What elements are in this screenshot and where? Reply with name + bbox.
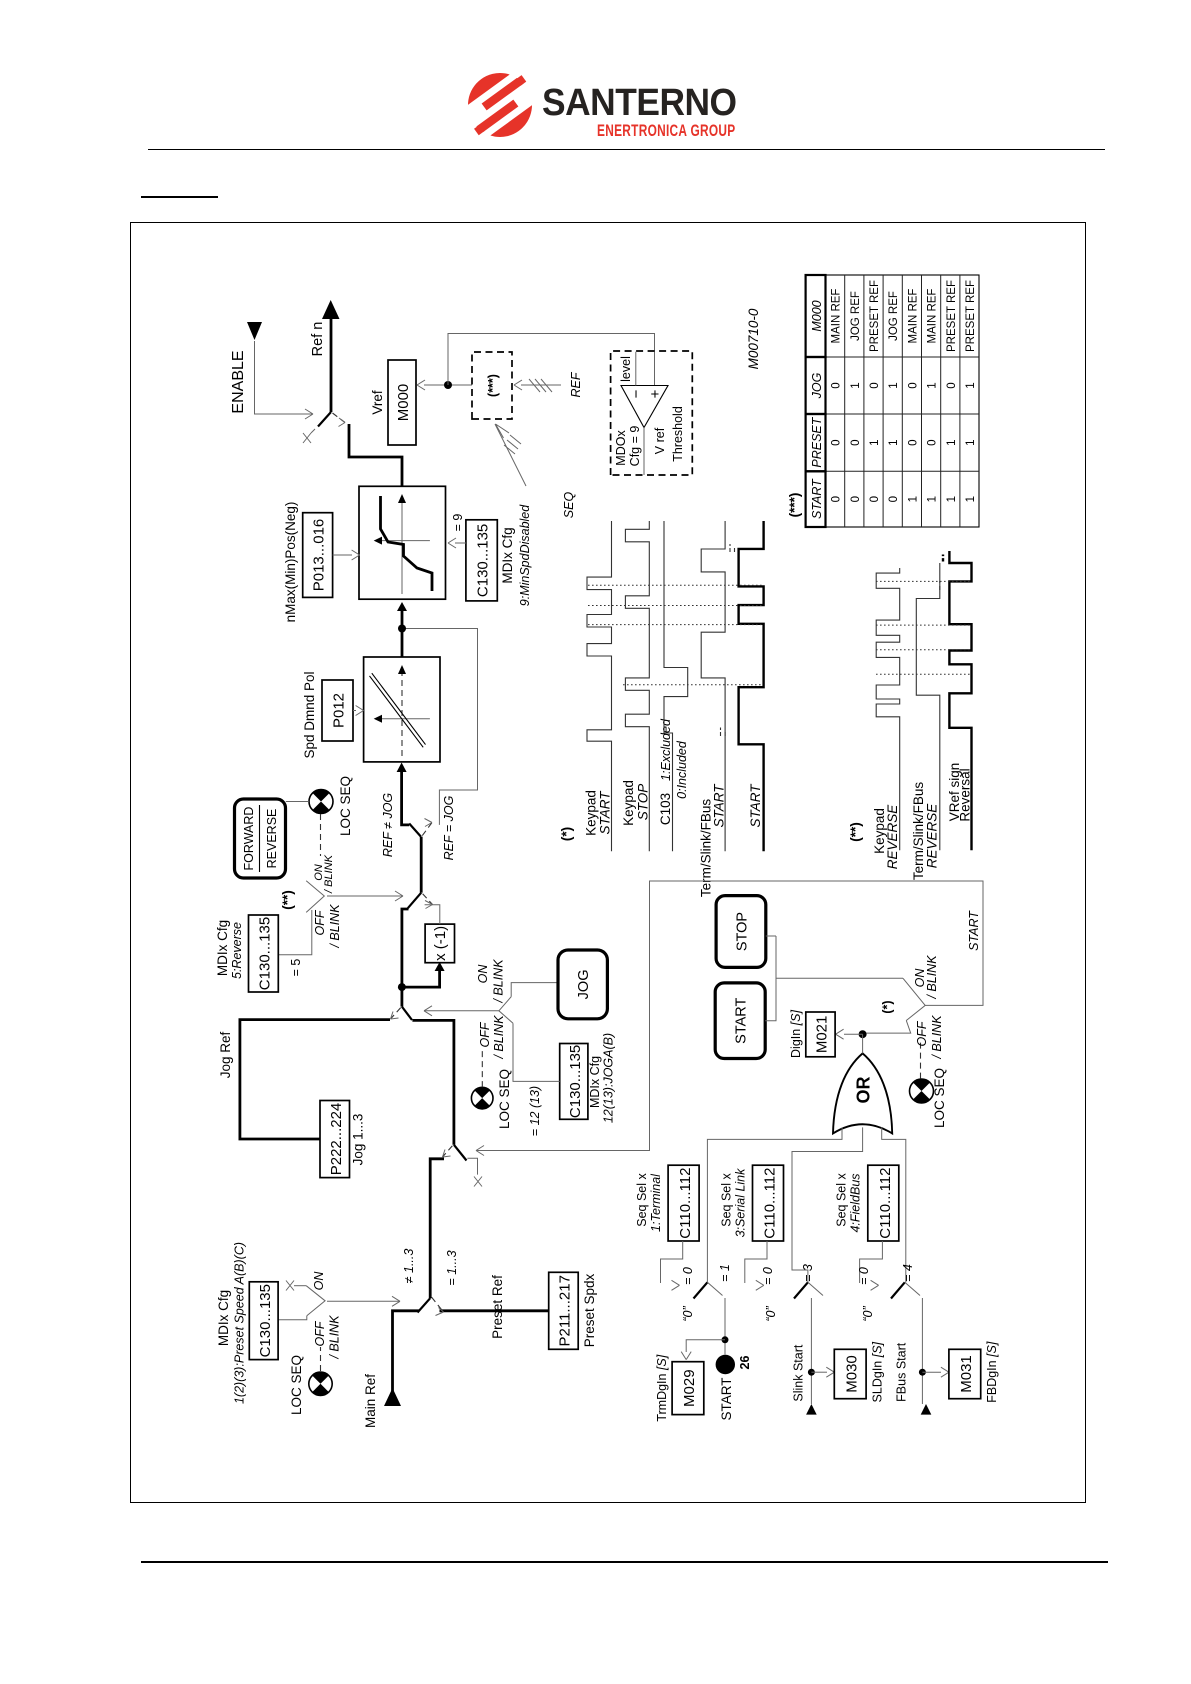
- svg-text:START: START: [598, 790, 613, 835]
- svg-text:TrmDgIn [S]: TrmDgIn [S]: [655, 1354, 669, 1421]
- svg-text:P012: P012: [331, 693, 348, 728]
- svg-text:9:MinSpdDisabled: 9:MinSpdDisabled: [518, 504, 532, 606]
- svg-text:OFF: OFF: [313, 1320, 327, 1346]
- dashed box MDOx comparator: [611, 351, 693, 475]
- dashed wire clock preset: [320, 1347, 322, 1371]
- header rule: [148, 149, 1105, 151]
- svg-text:= 0: = 0: [761, 1267, 775, 1285]
- svg-text:PRESET: PRESET: [810, 416, 824, 467]
- svg-text:Seq Sel x: Seq Sel x: [835, 1173, 849, 1227]
- selector fork preset: [306, 1286, 325, 1316]
- svg-text:(**): (**): [280, 890, 295, 910]
- svg-text:= 4: = 4: [901, 1264, 915, 1282]
- break marks thick START trace: [730, 544, 735, 552]
- wire level stub: [635, 352, 637, 386]
- svg-text:−: −: [628, 389, 645, 398]
- SANTERNO wordmark: [542, 88, 933, 120]
- svg-text:Reversal: Reversal: [958, 768, 973, 821]
- switch terminal sel: [694, 1282, 708, 1298]
- trace START thick: [739, 521, 764, 851]
- svg-text:JOG REF: JOG REF: [888, 291, 900, 341]
- svg-text:“0”: “0”: [861, 1306, 875, 1322]
- svg-text:1: 1: [946, 439, 958, 445]
- svg-text:MDIx Cfg: MDIx Cfg: [216, 1290, 231, 1346]
- arrow dashed S3: [391, 1012, 399, 1020]
- dotted align lines (**): [876, 581, 971, 674]
- trace Term START: [701, 521, 725, 851]
- svg-text:P211...217: P211...217: [557, 1275, 574, 1346]
- wire limiter output: [349, 424, 402, 486]
- break marks Term REVERSE: [939, 581, 941, 590]
- svg-text:= 1...3: = 1...3: [445, 1250, 459, 1285]
- junction dot FBDgIn: [919, 1369, 926, 1376]
- box C130...135 jog: [560, 1044, 588, 1120]
- svg-text:LOC SEQ: LOC SEQ: [338, 776, 353, 836]
- svg-text:Main Ref: Main Ref: [363, 1374, 378, 1428]
- svg-text:Ref n: Ref n: [310, 322, 326, 357]
- svg-text:1: 1: [850, 382, 862, 388]
- svg-text:ON: ON: [476, 964, 490, 984]
- svg-text:SLDgIn [S]: SLDgIn [S]: [871, 1341, 885, 1402]
- svg-text:C130...135: C130...135: [257, 1284, 274, 1357]
- svg-text:REF ≠ JOG: REF ≠ JOG: [381, 793, 395, 858]
- switch S6 enable: [318, 412, 331, 427]
- wire to comparator: [448, 334, 655, 386]
- svg-text:0: 0: [946, 382, 958, 388]
- svg-text:MDOx: MDOx: [614, 430, 628, 466]
- wire OR input2 from serial link: [792, 1127, 863, 1282]
- dashed wire clock jog: [481, 1050, 483, 1087]
- truth table grid: [806, 275, 979, 527]
- wire P012 output: [401, 611, 404, 657]
- box M030: [834, 1349, 866, 1398]
- box P211...217: [549, 1272, 579, 1349]
- trace C103: [664, 521, 688, 851]
- svg-text:= 0: = 0: [681, 1267, 695, 1285]
- box P012 param: [322, 680, 353, 741]
- svg-text:C110...112: C110...112: [762, 1168, 779, 1239]
- junction dot P012 output: [398, 625, 406, 633]
- wire arrow into M021: [844, 1033, 863, 1035]
- wire START box to fork: [765, 936, 903, 1021]
- arrow Slink Start input: [806, 1404, 817, 1415]
- trace Term REVERSE: [916, 563, 940, 850]
- svg-text:PRESET REF: PRESET REF: [965, 280, 977, 352]
- svg-text:12(13):JOGA(B): 12(13):JOGA(B): [602, 1033, 616, 1123]
- footer rule: [141, 1561, 1108, 1563]
- svg-text:= 3: = 3: [801, 1264, 815, 1282]
- diagram frame: [130, 222, 1086, 1503]
- box C130...135 limiter: [466, 520, 497, 601]
- arrow dashed S2: [443, 1150, 451, 1158]
- svg-text:MDIx Cfg: MDIx Cfg: [215, 920, 230, 976]
- svg-text:M00710-0: M00710-0: [746, 308, 761, 369]
- box FORWARD/REVERSE: [235, 799, 286, 878]
- junction dot TrmDgIn: [722, 1336, 729, 1343]
- svg-text:= 1: = 1: [718, 1264, 732, 1282]
- svg-text:Jog Ref: Jog Ref: [218, 1031, 233, 1078]
- ENERTRONICA GROUP: [597, 122, 770, 141]
- svg-text:1: 1: [965, 496, 977, 502]
- svg-text:1:Terminal: 1:Terminal: [649, 1173, 663, 1232]
- wire bypass ref=jog: [403, 629, 478, 825]
- box x(-1): [425, 924, 454, 963]
- svg-text:0:Included: 0:Included: [675, 740, 689, 799]
- box C130...135 reverse: [249, 915, 279, 992]
- switch S2 jog interrupt: [454, 1145, 467, 1161]
- svg-text:REVERSE: REVERSE: [265, 809, 279, 869]
- svg-text:0: 0: [869, 382, 881, 388]
- short underline: [141, 196, 218, 198]
- wire SLDgIn row: [810, 1298, 812, 1404]
- junction dot SLDgIn: [808, 1369, 815, 1376]
- arrow Main Ref: [384, 1388, 401, 1406]
- control arrow into S4: [327, 895, 403, 897]
- svg-text:START: START: [748, 783, 763, 828]
- svg-text:Preset Ref: Preset Ref: [490, 1275, 505, 1339]
- control arrow P012: [353, 710, 356, 712]
- svg-text:PRESET REF: PRESET REF: [869, 280, 881, 352]
- op-amp comparator: [621, 386, 668, 428]
- svg-text:MAIN REF: MAIN REF: [831, 289, 843, 344]
- svg-text:(***): (***): [787, 493, 802, 518]
- svg-text:M000: M000: [395, 384, 412, 422]
- svg-text:MAIN REF: MAIN REF: [907, 289, 919, 344]
- svg-text:= 9: = 9: [451, 514, 465, 532]
- svg-text:OFF: OFF: [478, 1021, 492, 1047]
- svg-text:PRESET REF: PRESET REF: [946, 280, 958, 352]
- svg-text:1: 1: [888, 439, 900, 445]
- svg-text:JOG REF: JOG REF: [850, 291, 862, 341]
- svg-text:Jog 1...3: Jog 1...3: [351, 1114, 366, 1166]
- svg-text:/ BLINK: / BLINK: [328, 1315, 342, 1360]
- clock LOC SEQ reverse: [309, 789, 333, 813]
- svg-text:0: 0: [907, 382, 919, 388]
- arrow dashed S5: [425, 819, 433, 827]
- wire FORWARD box to clock: [286, 801, 309, 803]
- svg-text:M000: M000: [810, 300, 824, 331]
- svg-text:V ref: V ref: [653, 427, 667, 454]
- svg-text:C130...135: C130...135: [475, 524, 492, 597]
- svg-text:1: 1: [888, 382, 900, 388]
- limiter S-curve: [381, 496, 433, 591]
- svg-text:nMax(Min)Pos(Neg): nMax(Min)Pos(Neg): [283, 502, 298, 623]
- double diagonal P012: [370, 673, 426, 747]
- svg-text:0: 0: [869, 496, 881, 502]
- wire arrow into M030: [811, 1371, 827, 1373]
- X open mark: [286, 1281, 294, 1291]
- svg-text:P222...224: P222...224: [328, 1103, 345, 1176]
- svg-text:x (-1): x (-1): [432, 926, 449, 961]
- wire arrow into M029: [686, 1340, 725, 1352]
- break marks Term: [721, 728, 726, 737]
- svg-text:MDIx Cfg: MDIx Cfg: [500, 527, 515, 583]
- svg-text:MAIN REF: MAIN REF: [927, 289, 939, 344]
- box STOP keypad: [716, 896, 766, 968]
- svg-text:M031: M031: [958, 1355, 975, 1393]
- box P013...016: [303, 513, 333, 598]
- control arrow into S3 jog: [424, 1010, 499, 1012]
- control wire S2 from JOG logic: [476, 1146, 484, 1156]
- dashed centerline P012: [401, 674, 403, 756]
- wire Jog Ref rail: [240, 1020, 390, 1139]
- switch fieldbus sel: [891, 1282, 905, 1298]
- svg-text:STOP: STOP: [735, 912, 751, 951]
- arrow ENABLE input: [247, 322, 262, 340]
- svg-text:3:Serial Link: 3:Serial Link: [734, 1168, 748, 1238]
- arrow dashed S6: [339, 418, 346, 427]
- svg-text:(*): (*): [559, 827, 574, 841]
- svg-text:ON: ON: [312, 1271, 326, 1291]
- switch S4 reverse: [408, 893, 421, 909]
- switch serial sel: [794, 1282, 808, 1298]
- svg-text:MDIx Cfg: MDIx Cfg: [588, 1056, 602, 1108]
- svg-text:Keypad: Keypad: [621, 780, 636, 826]
- vertical axis limiter: [381, 540, 430, 542]
- clock LOC SEQ start: [910, 1079, 934, 1103]
- svg-text:FBus Start: FBus Start: [895, 1342, 909, 1402]
- trace VRef sign Reversal thick: [949, 551, 971, 850]
- clock LOC SEQ preset: [309, 1372, 332, 1396]
- wire TrmDgIn row: [724, 1298, 726, 1355]
- junction dot M000: [444, 381, 452, 389]
- svg-text:1: 1: [927, 382, 939, 388]
- block limiter nMax: [359, 486, 446, 599]
- svg-text:1: 1: [946, 496, 958, 502]
- svg-text:26: 26: [738, 1356, 752, 1370]
- svg-text:REVERSE: REVERSE: [925, 803, 940, 869]
- hatch REF: [529, 379, 552, 392]
- wire preset ref: [440, 1309, 549, 1312]
- wire main ref: [393, 1311, 420, 1394]
- box START keypad: [715, 983, 765, 1059]
- svg-text:0: 0: [850, 496, 862, 502]
- arrow dashed S1: [436, 1308, 444, 1316]
- svg-text:/ BLINK: / BLINK: [930, 1015, 944, 1060]
- svg-text:= 0: = 0: [857, 1267, 871, 1285]
- svg-text:(*): (*): [881, 1000, 895, 1013]
- wire x(-1) output: [425, 905, 440, 924]
- svg-text:1: 1: [869, 439, 881, 445]
- table column PRESET: [831, 439, 977, 445]
- svg-text:“0”: “0”: [764, 1306, 778, 1322]
- wire arrow into M031: [922, 1371, 941, 1373]
- svg-text:C110...112: C110...112: [677, 1168, 694, 1239]
- wire M000 tap: [424, 384, 472, 386]
- wire Ref n output: [330, 319, 333, 412]
- svg-text:OFF: OFF: [915, 1020, 929, 1046]
- wire START control loop: [476, 881, 983, 1151]
- svg-text:1: 1: [965, 382, 977, 388]
- switch S3 jog select: [391, 1008, 401, 1019]
- wire C130 reverse to fork: [279, 910, 312, 955]
- dashed box (***): [472, 352, 512, 419]
- svg-text:Spd Dmnd Pol: Spd Dmnd Pol: [302, 671, 317, 758]
- wire eq0 fieldbus: [860, 1241, 883, 1283]
- svg-text:START: START: [967, 910, 981, 951]
- selector fork reverse: [306, 881, 324, 913]
- box JOG: [558, 950, 607, 1019]
- svg-text:OFF: OFF: [313, 909, 327, 935]
- svg-text:REF = JOG: REF = JOG: [442, 795, 456, 860]
- wire OR output: [862, 1034, 864, 1053]
- X open mark S2: [474, 1177, 482, 1187]
- svg-text:(**): (**): [848, 822, 863, 842]
- svg-text:0: 0: [907, 439, 919, 445]
- svg-text:C130...135: C130...135: [257, 917, 274, 990]
- svg-text:C110...112: C110...112: [877, 1168, 894, 1239]
- box M000: [388, 360, 416, 445]
- svg-text:Cfg = 9: Cfg = 9: [628, 426, 642, 467]
- trace Keypad START: [587, 521, 612, 851]
- svg-text:0: 0: [831, 382, 843, 388]
- svg-text:“0”: “0”: [681, 1306, 695, 1322]
- box P222...224: [320, 1101, 350, 1178]
- svg-text:Keypad: Keypad: [584, 790, 599, 836]
- wire C130 preset to fork: [278, 1316, 307, 1320]
- svg-text:0: 0: [831, 496, 843, 502]
- svg-text:FBDgIn [S]: FBDgIn [S]: [985, 1341, 999, 1403]
- selector fork loc start: [903, 978, 925, 1020]
- table column JOG: [831, 382, 977, 388]
- svg-text:(***): (***): [486, 374, 500, 397]
- svg-text:M021: M021: [814, 1016, 831, 1054]
- svg-text:0: 0: [927, 439, 939, 445]
- break marks VRef trace: [942, 555, 944, 562]
- box C110...112 terminal: [668, 1165, 699, 1241]
- box C110...112 serial: [753, 1165, 784, 1241]
- svg-text:LOC SEQ: LOC SEQ: [289, 1355, 304, 1415]
- svg-text:Slink Start: Slink Start: [792, 1344, 806, 1401]
- wire ENABLE: [255, 341, 314, 414]
- svg-text:Preset Spdx: Preset Spdx: [582, 1273, 597, 1347]
- svg-text:Vref: Vref: [370, 390, 385, 415]
- box M029: [672, 1362, 704, 1415]
- junction dot x(-1) tap: [398, 983, 406, 991]
- trace Keypad STOP: [625, 521, 649, 851]
- svg-text:1: 1: [907, 496, 919, 502]
- control arrow C130 limiter: [455, 542, 466, 544]
- svg-text:LOC SEQ: LOC SEQ: [932, 1068, 947, 1128]
- control arrow P013: [333, 554, 352, 556]
- svg-text:JOG: JOG: [810, 372, 824, 399]
- centerline limiter: [401, 503, 403, 594]
- svg-text:1(2)(3):Preset Speed A(B)(C): 1(2)(3):Preset Speed A(B)(C): [233, 1242, 247, 1404]
- control arrow into S1: [327, 1300, 400, 1302]
- wire SEQ input: [495, 424, 526, 486]
- wire fork to OR dot: [863, 1021, 911, 1034]
- dashed wire clock start: [920, 1040, 922, 1079]
- wire REF input: [521, 384, 561, 386]
- svg-text:REF: REF: [569, 371, 583, 397]
- svg-text:REVERSE: REVERSE: [885, 804, 900, 870]
- svg-text:P013...016: P013...016: [311, 519, 328, 592]
- box C130...135 preset: [249, 1282, 278, 1360]
- svg-text:START: START: [719, 1377, 734, 1420]
- table column M000: [831, 280, 977, 352]
- svg-text:DigIn [S]: DigIn [S]: [789, 1010, 803, 1058]
- wire STOP box stub: [766, 935, 776, 937]
- open contact elbow S2: [467, 1158, 477, 1174]
- svg-text:M030: M030: [844, 1355, 861, 1393]
- box C110...112 fieldbus: [868, 1165, 899, 1241]
- switch S5 ref-jog: [409, 824, 421, 837]
- svg-text:FORWARD: FORWARD: [242, 807, 256, 871]
- dotted align lines (*): [588, 585, 763, 685]
- svg-text:+: +: [647, 389, 664, 398]
- trace Keypad REVERSE: [876, 568, 900, 850]
- switch S1 preset select: [418, 1298, 431, 1312]
- svg-text:START: START: [712, 783, 727, 828]
- wire OR input3 from fieldbus: [882, 1127, 906, 1282]
- svg-text:STOP: STOP: [636, 784, 651, 821]
- svg-text:Threshold: Threshold: [671, 406, 685, 462]
- svg-text:JOG: JOG: [576, 969, 592, 999]
- hatch SEQ: [504, 435, 521, 454]
- dashed wire clock reverse: [320, 814, 322, 856]
- svg-text:C130...135: C130...135: [567, 1045, 584, 1118]
- svg-text:C103: C103: [658, 793, 673, 825]
- svg-text:Seq Sel x: Seq Sel x: [635, 1173, 649, 1227]
- svg-text:1: 1: [927, 496, 939, 502]
- wire comparator output: [643, 428, 645, 476]
- wire eq0 terminal: [661, 1241, 683, 1283]
- svg-text:START: START: [734, 997, 750, 1043]
- arrow dashed S4: [425, 901, 433, 909]
- table column START: [831, 496, 977, 502]
- svg-text:M029: M029: [681, 1369, 698, 1407]
- vertical axis P012: [381, 718, 430, 720]
- svg-text:/ BLINK: / BLINK: [492, 1015, 506, 1060]
- svg-text:OR: OR: [854, 1076, 874, 1103]
- svg-text:= 5: = 5: [289, 959, 303, 977]
- wire to x(-1): [402, 971, 440, 987]
- svg-text:/ BLINK: / BLINK: [492, 959, 506, 1004]
- wire blade to P012 input: [402, 772, 410, 825]
- svg-text:4:FieldBus: 4:FieldBus: [849, 1173, 863, 1232]
- svg-text:1: 1: [965, 439, 977, 445]
- Santerno logo mark: [460, 66, 540, 146]
- svg-text:SEQ: SEQ: [562, 492, 576, 519]
- node START 26: [716, 1355, 735, 1374]
- svg-text:1:Excluded: 1:Excluded: [659, 718, 673, 781]
- svg-text:Seq Sel x: Seq Sel x: [720, 1173, 734, 1227]
- OR gate: [833, 1053, 892, 1133]
- svg-text:= 12 (13): = 12 (13): [528, 1086, 542, 1136]
- svg-text:0: 0: [831, 439, 843, 445]
- svg-text:LOC SEQ: LOC SEQ: [497, 1069, 512, 1129]
- svg-text:START: START: [810, 478, 824, 519]
- junction dot M021: [859, 1030, 867, 1038]
- svg-text:0: 0: [850, 439, 862, 445]
- svg-text:0: 0: [888, 496, 900, 502]
- clock LOC SEQ jog: [471, 1087, 493, 1109]
- wire eq0 serial: [745, 1241, 767, 1283]
- svg-text:/ BLINK: / BLINK: [328, 904, 342, 949]
- svg-text:level: level: [619, 356, 633, 382]
- arrow FBus Start input: [921, 1404, 932, 1415]
- svg-text:/ BLINK: / BLINK: [323, 854, 335, 894]
- svg-text:/ BLINK: / BLINK: [925, 955, 939, 1000]
- X open mark enable: [311, 429, 315, 433]
- box M031: [949, 1349, 981, 1398]
- selector fork jog: [499, 997, 513, 1024]
- block P012 polarity: [364, 657, 440, 762]
- svg-text:≠ 1...3: ≠ 1...3: [402, 1249, 416, 1284]
- svg-text:5:Reverse: 5:Reverse: [230, 922, 244, 979]
- box M021: [806, 1012, 835, 1057]
- wire OR input1 from terminal: [707, 1127, 842, 1282]
